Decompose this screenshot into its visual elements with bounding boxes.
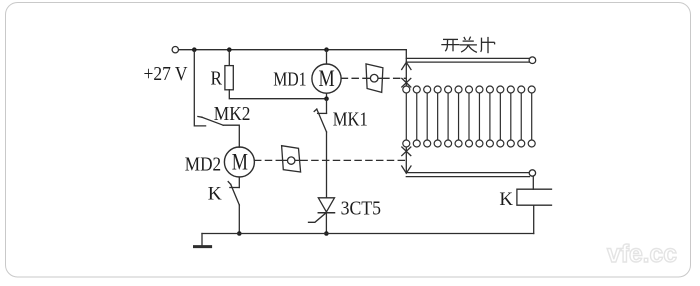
wiper arrow top X-head <box>402 78 411 87</box>
contact column 10 <box>497 86 504 147</box>
contact bank columns <box>403 86 535 147</box>
coupling linkage MD2 dashes <box>255 159 282 161</box>
switch bar bottom (upper line) <box>406 172 529 174</box>
contact column 7 <box>466 86 473 147</box>
wire R bottom to MD1 bottom <box>229 90 326 99</box>
contact column 13 <box>528 86 535 147</box>
coupling cam 1 axle circle <box>370 74 378 82</box>
wiper arrow bottom X-head <box>402 147 411 156</box>
wire K to bottom rail <box>238 205 240 234</box>
contact column 4 <box>434 86 441 147</box>
svg-text:vfe.cc: vfe.cc <box>607 240 677 268</box>
svg-text:MD1: MD1 <box>273 68 306 90</box>
label 开关片 (hand drawn strokes) <box>441 37 494 54</box>
switch bar top (upper line) <box>406 57 529 59</box>
motor MD1 <box>312 64 341 93</box>
coupling cam 1 axle line <box>367 77 383 79</box>
node J4 <box>237 231 242 236</box>
thyristor 3CT5 triangle <box>318 198 334 212</box>
svg-text:M: M <box>232 150 248 175</box>
coupling linkage MD1 dashes right <box>383 77 406 79</box>
coupling linkage MD1 dashes <box>341 77 366 79</box>
switch K tick <box>230 187 239 189</box>
switch bar top (lower line) <box>406 61 529 63</box>
coupling linkage MD2 dashes right <box>301 159 406 161</box>
coupling cam 2 axle circle <box>288 157 295 164</box>
thyristor 3CT5 cathode bar <box>318 212 334 214</box>
switch MK1 tick <box>318 112 327 114</box>
contact column 6 <box>455 86 462 147</box>
ground stem <box>201 234 203 246</box>
char 关 <box>460 37 477 53</box>
switch MK1 barb <box>314 109 317 111</box>
motor MD2 <box>224 147 254 177</box>
switch MK2 blade <box>202 117 223 125</box>
wire bar terminal to relay K coil <box>532 176 534 189</box>
svg-text:R: R <box>211 68 223 90</box>
coupling cam 1 <box>366 64 383 93</box>
wire MD2 to K switch <box>238 177 240 188</box>
switch K blade <box>231 184 240 205</box>
contact column 5 <box>445 86 452 147</box>
contact column 2 <box>413 86 420 147</box>
wire MK2 to MD2 <box>223 125 239 147</box>
svg-text:M: M <box>319 66 335 91</box>
switch bar bottom (lower line) <box>406 176 529 178</box>
relay K coil (open right) <box>517 189 552 205</box>
terminal +27V <box>172 47 178 53</box>
wire top rail <box>179 49 407 51</box>
node J6 <box>324 231 329 236</box>
contact column 1 <box>403 86 410 147</box>
wiper arrow bottom shaft <box>405 147 407 173</box>
svg-text:MD2: MD2 <box>185 154 221 176</box>
thyristor 3CT5 gate <box>309 213 327 223</box>
svg-text:3CT5: 3CT5 <box>341 198 381 220</box>
wire to MK1 <box>326 99 328 114</box>
switch bar top terminal <box>529 57 536 64</box>
switch MK1 blade <box>317 109 327 132</box>
wiper arrow bottom down-head <box>402 166 411 173</box>
svg-text:MK1: MK1 <box>333 109 368 131</box>
wiper arrow top up-head <box>402 62 411 69</box>
node J3 <box>324 47 329 52</box>
coupling cam 2 axle line <box>282 159 300 161</box>
wire MD1 bottom lead <box>326 93 328 99</box>
resistor R body <box>225 66 233 90</box>
contact column 11 <box>507 86 514 147</box>
wire left branch down <box>194 50 205 126</box>
contact column 3 <box>424 86 431 147</box>
contact column 8 <box>476 86 483 147</box>
contact column 9 <box>486 86 493 147</box>
wire K coil to bottom rail <box>533 205 535 233</box>
svg-text:+27 V: +27 V <box>144 63 188 85</box>
resistor R leads <box>228 50 230 66</box>
wiper arrow top shaft <box>405 62 407 86</box>
char 片 <box>481 37 495 53</box>
coupling cam 2 <box>282 146 301 172</box>
node J2 <box>227 47 232 52</box>
svg-text:MK2: MK2 <box>214 103 251 125</box>
svg-text:K: K <box>208 184 222 205</box>
node J5 <box>324 96 329 101</box>
contact column 12 <box>518 86 525 147</box>
wire MK1 to SCR <box>326 132 328 198</box>
wire feed down to switch bar <box>405 50 407 62</box>
node J1 <box>192 47 197 52</box>
wire SCR to bottom rail <box>325 213 327 234</box>
switch bar bottom terminal <box>529 170 535 176</box>
svg-text:K: K <box>499 189 513 210</box>
char 开 <box>441 39 459 51</box>
ground bar <box>195 245 211 248</box>
switch K barb <box>228 182 231 185</box>
wire MD1 top lead <box>326 50 328 64</box>
wire bottom rail <box>202 233 534 235</box>
switch MK2 barb <box>198 116 202 119</box>
